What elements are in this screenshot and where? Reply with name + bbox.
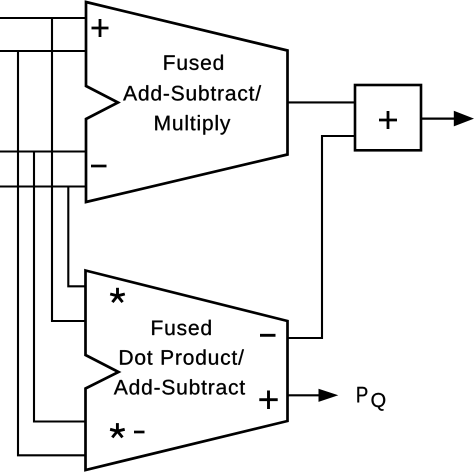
wire branch B to dot-product input 4 [18,51,86,455]
wire branch C to dot-product input 3 [34,152,86,422]
asterisk label on U2 input 1 [110,288,125,302]
value label "Add-Subtract/" on U1 [123,85,261,100]
asterisk label on U2 input 4 [110,423,125,437]
minus label on U2 output [260,334,276,337]
wire branch A to dot-product input 2 [52,18,86,321]
value label "Add-Subtract" on U2 [114,379,245,394]
op-amp U2 : Fused Dot Product/Add-Subtract unit [86,271,288,471]
wire input C (third horizontal) [0,150,86,152]
op-amp U1 : Fused Add-Subtract/Multiply unit [86,2,288,202]
plus label in adder box [379,111,397,129]
minus label on U1 input [91,165,107,168]
label U1 text [123,55,261,135]
net label Q subscript [372,393,386,411]
net label P [357,387,367,403]
small minus label next to asterisk on U2 [134,431,145,434]
wire input D (fourth horizontal) [0,185,86,187]
wire FAM output to adder [288,101,356,103]
plus label on U2 output [259,391,277,410]
adder box [355,85,421,150]
wire adder output with arrowhead [421,111,474,127]
wire branch D to dot-product input 1 [68,187,85,287]
value label "Fused" on U1 [164,55,223,70]
value label "Fused" on U2 [152,320,211,335]
label U2 text [114,320,245,395]
plus label on U1 input [92,19,109,37]
wire dot-product minus output to adder [288,136,356,338]
value label "Dot Product/" on U2 [120,349,244,364]
wire U2 plus output with arrowhead [288,389,339,402]
wire input A (top horizontal) [0,17,86,19]
wire input B (second horizontal) [0,50,86,52]
node PQ output label [357,387,385,411]
value label "Multiply" on U1 [155,115,230,135]
